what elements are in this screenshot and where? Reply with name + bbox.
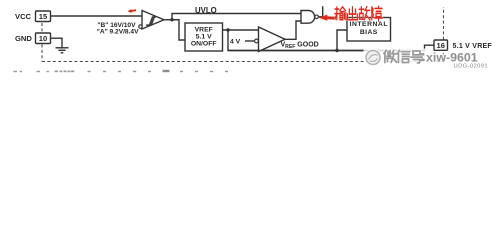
svg-text:INTERNAL: INTERNAL: [350, 21, 388, 28]
block INTERNAL BIAS: [347, 18, 391, 42]
svg-text:5.1 V VREF: 5.1 V VREF: [453, 43, 493, 50]
wire 4V to comparator: [245, 40, 255, 42]
watermark logo: [365, 49, 382, 66]
red annotation arrow small (top left): [128, 9, 137, 13]
svg-text:"A" 9.2V/8.4V: "A" 9.2V/8.4V: [97, 28, 139, 35]
svg-text:16: 16: [436, 41, 444, 50]
pin box 16 (VREF): [434, 40, 448, 50]
svg-text:5.1 V: 5.1 V: [196, 33, 212, 40]
wire comparator output to AND gate: [285, 21, 301, 39]
inverting bubble: [255, 39, 259, 43]
wire VCC to UVLO comparator: [51, 15, 143, 17]
red annotation text 输出故障 (hand drawn strokes): [335, 6, 383, 21]
wire UVLO output to AND gate: [172, 14, 301, 20]
watermark backdrop: [364, 49, 430, 68]
svg-text:ON/OFF: ON/OFF: [191, 40, 217, 47]
wire GND to ground: [51, 38, 63, 47]
node junction on VREF rail: [226, 28, 229, 31]
comparator U1 (UVLO, with hysteresis): [142, 11, 164, 30]
svg-text:UDG-02091: UDG-02091: [454, 63, 489, 69]
wire VREF rail down and right to pin 16: [228, 30, 434, 51]
pin box 10 (GND): [36, 33, 51, 44]
red annotation arrow (output enable): [319, 15, 338, 21]
char 故: [359, 7, 370, 20]
wire VREF rail overdraw: [228, 50, 425, 52]
pin box 15 (VCC): [36, 11, 51, 22]
inverting bubble on UVLO comparator: [139, 25, 142, 28]
char 障: [372, 6, 383, 21]
svg-text:GND: GND: [15, 34, 32, 43]
svg-text:VCC: VCC: [15, 12, 32, 21]
red annotation text 输出故障 white halo: [335, 6, 383, 21]
svg-text:BIAS: BIAS: [360, 29, 378, 36]
svg-text:UVLO: UVLO: [195, 6, 217, 15]
svg-text:10: 10: [39, 34, 47, 43]
node junction: [170, 18, 173, 21]
AND gate U3: [301, 11, 315, 24]
IC boundary (dashed): [42, 7, 444, 62]
svg-text:VREF: VREF: [195, 26, 213, 33]
svg-text:VREF GOOD: VREF GOOD: [281, 42, 319, 50]
char 输: [335, 7, 346, 20]
svg-text:4 V: 4 V: [230, 39, 241, 46]
output bubble: [315, 15, 319, 19]
cropped caption fragments at bottom: [14, 70, 229, 72]
watermark text 微信号 (hand drawn strokes): [384, 50, 424, 63]
svg-text:15: 15: [39, 12, 48, 21]
ground: [56, 48, 69, 53]
wire UVLO output to VREF ON/OFF: [172, 20, 185, 40]
wire to INTERNAL BIAS: [337, 30, 347, 51]
comparator U2 (VREF GOOD): [259, 27, 286, 52]
hysteresis symbol: [146, 17, 156, 25]
node junction internal bias tap: [335, 49, 338, 52]
wire comparator output: [164, 19, 172, 21]
block VREF 5.1V ON/OFF: [185, 23, 223, 51]
svg-text:xiw-9601: xiw-9601: [426, 50, 478, 64]
char 出: [348, 7, 358, 20]
wire VREF output to comparator + input: [223, 29, 259, 31]
wire AND output: [318, 6, 322, 17]
